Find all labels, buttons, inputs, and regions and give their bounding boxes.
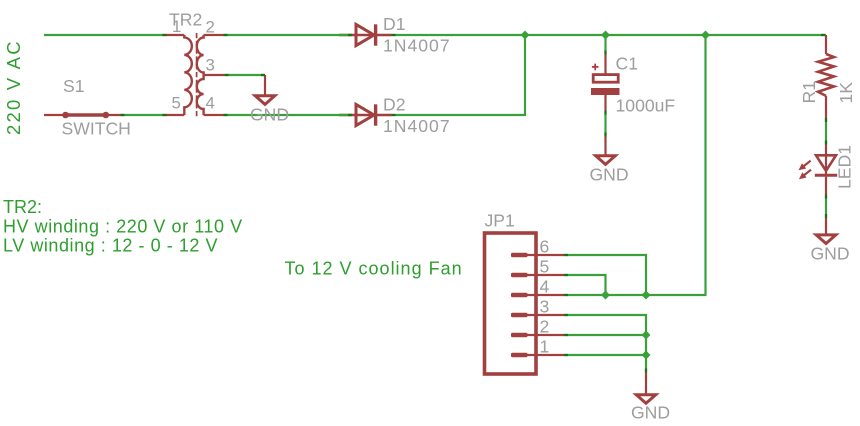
TR2 pin number 4 <box>206 94 215 113</box>
svg-text:2: 2 <box>540 317 550 337</box>
svg-text:2: 2 <box>206 18 215 37</box>
switch S1 <box>44 112 125 119</box>
svg-text:JP1: JP1 <box>485 211 515 231</box>
svg-text:GND: GND <box>631 403 670 423</box>
junction pin5 net <box>601 291 610 300</box>
label S1 <box>63 76 85 96</box>
svg-text:6: 6 <box>540 237 550 257</box>
label D2 value 1N4007 <box>383 116 451 136</box>
label GND at TR2 pin3 <box>250 105 289 125</box>
wire R1 to LED1 <box>825 120 827 144</box>
TR2 pin number 5 <box>172 94 181 113</box>
junction pin2 net <box>642 331 651 340</box>
wire JP1 pin2 to GND net <box>564 334 646 336</box>
label JP1 <box>485 211 515 231</box>
svg-text:To 12 V cooling Fan: To 12 V cooling Fan <box>285 259 463 279</box>
label SWITCH <box>62 119 131 139</box>
junction rail to fan feed <box>701 31 710 40</box>
JP1 pin number 6 <box>540 237 550 257</box>
wire D2 cathode up to rail <box>376 35 526 115</box>
label GND at JP1 <box>631 403 670 423</box>
TR2 pin 3 lead <box>204 74 225 76</box>
note LV winding <box>3 236 218 256</box>
svg-text:R1: R1 <box>799 81 819 104</box>
transformer TR2 <box>165 33 225 117</box>
label TR2 <box>169 9 202 29</box>
wire TR2 pin4 to D2 anode <box>225 114 356 116</box>
svg-text:LV winding : 12 - 0 - 12 V: LV winding : 12 - 0 - 12 V <box>3 236 218 256</box>
JP1 pin 2 <box>511 333 564 338</box>
wire S1 to TR2 pin5 <box>125 114 165 116</box>
wire rail to C1 <box>604 35 606 54</box>
label C1 value 1000uF <box>616 96 676 116</box>
junction D1 D2 <box>521 31 530 40</box>
ground symbol at C1 <box>596 136 616 164</box>
svg-text:D1: D1 <box>383 14 406 34</box>
ground symbol at JP1 <box>636 372 656 403</box>
LED LED1 <box>799 144 838 196</box>
JP1 pin number 5 <box>540 257 550 277</box>
svg-text:4: 4 <box>206 94 215 113</box>
JP1 pin number 1 <box>540 337 550 357</box>
ground symbol at TR2 pin3 <box>255 75 275 104</box>
svg-text:D2: D2 <box>383 95 406 115</box>
label GND at C1 <box>590 165 629 185</box>
wire LED1 to GND <box>825 196 827 218</box>
note HV winding <box>3 217 243 237</box>
JP1 pin 4 <box>511 293 564 298</box>
svg-text:GND: GND <box>250 105 289 125</box>
svg-text:5: 5 <box>540 257 550 277</box>
svg-text:1K: 1K <box>836 82 856 104</box>
svg-text:1000uF: 1000uF <box>616 96 676 116</box>
svg-text:TR2:: TR2: <box>3 197 42 217</box>
JP1 pin 3 <box>511 313 564 318</box>
net label 220 V AC <box>3 39 24 135</box>
TR2 pin 5 lead <box>165 114 185 116</box>
wire TR2 pin2 to D1 anode <box>225 34 356 36</box>
TR2 pin 4 lead <box>204 114 225 116</box>
label D1 <box>383 14 406 34</box>
svg-text:LED1: LED1 <box>835 145 855 189</box>
svg-text:3: 3 <box>206 56 215 75</box>
resistor R1 <box>818 35 834 120</box>
JP1 pin number 4 <box>540 277 550 297</box>
wire JP1 pin1 to GND net <box>564 354 646 356</box>
TR2 secondary winding lower <box>197 75 204 115</box>
svg-text:S1: S1 <box>63 76 85 96</box>
svg-text:220 V AC: 220 V AC <box>3 39 24 135</box>
label D1 value 1N4007 <box>383 36 451 56</box>
wire JP1 pin5 down to pin4 net <box>564 275 606 295</box>
label R1 value 1K <box>836 82 856 104</box>
svg-text:5: 5 <box>172 94 181 113</box>
diode D1 <box>356 24 376 45</box>
svg-text:GND: GND <box>590 165 629 185</box>
wire net TR2 pin3 to GND <box>225 74 265 76</box>
label R1 <box>799 81 819 104</box>
svg-text:4: 4 <box>540 277 550 297</box>
capacitor C1 <box>591 54 620 112</box>
label D2 <box>383 95 406 115</box>
svg-text:1N4007: 1N4007 <box>383 36 451 56</box>
JP1 pin number 3 <box>540 297 550 317</box>
wire C1 to GND <box>604 112 606 136</box>
svg-text:1: 1 <box>540 337 550 357</box>
TR2 pin number 3 <box>206 56 215 75</box>
TR2 pin 2 lead <box>204 34 225 36</box>
label LED1 <box>835 145 855 189</box>
label GND at LED1 <box>811 244 850 264</box>
svg-text:1: 1 <box>172 17 181 36</box>
svg-text:C1: C1 <box>616 54 639 74</box>
wire JP1 pin3 down to GND <box>564 315 646 372</box>
TR2 pin number 2 <box>206 18 215 37</box>
TR2 secondary winding upper <box>197 35 204 75</box>
JP1 pin number 2 <box>540 317 550 337</box>
junction pin6 net <box>642 291 651 300</box>
note TR2: <box>3 197 42 217</box>
svg-text:HV winding : 220 V or 110 V: HV winding : 220 V or 110 V <box>3 217 243 237</box>
TR2 pin number 1 <box>172 17 181 36</box>
TR2 primary winding <box>184 35 192 115</box>
net end marks <box>121 35 827 373</box>
JP1 pin 6 <box>511 253 564 258</box>
connector JP1 <box>485 233 565 374</box>
diode D2 <box>356 104 376 125</box>
junction rail C1 <box>601 31 610 40</box>
svg-text:GND: GND <box>811 244 850 264</box>
wire AC top to TR2 pin1 <box>44 34 165 36</box>
JP1 pin 1 <box>511 353 564 358</box>
wire JP1 pin6 down to pin4 net <box>564 255 646 295</box>
ground symbol at LED1 <box>816 218 836 244</box>
wire D1 cathode to +12V rail <box>376 34 827 36</box>
svg-text:3: 3 <box>540 297 550 317</box>
wire rail down to JP1 pin4 row <box>564 35 706 295</box>
note To 12 V cooling Fan <box>285 259 463 279</box>
TR2 pin 1 lead <box>165 34 185 36</box>
svg-text:1N4007: 1N4007 <box>383 116 451 136</box>
JP1 pin 5 <box>511 273 564 278</box>
TR2 core <box>196 33 198 117</box>
label C1 <box>616 54 639 74</box>
junction pin1 net <box>642 351 651 360</box>
svg-text:SWITCH: SWITCH <box>62 119 131 139</box>
